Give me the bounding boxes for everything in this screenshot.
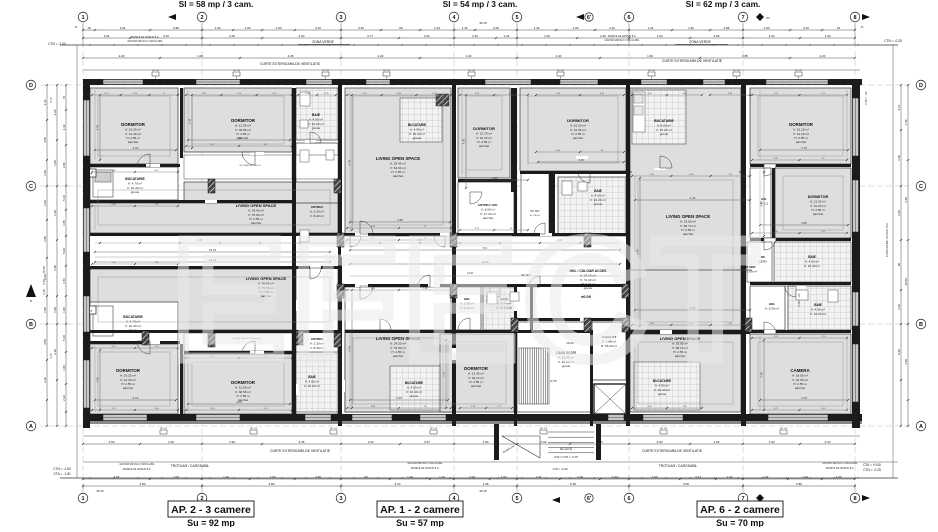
hallway strip bottom-left apt [184, 333, 292, 351]
wall axis 3 [338, 85, 342, 426]
window top 2 [196, 80, 240, 85]
svg-text:PERETE DE SIPRUN B.A.: PERETE DE SIPRUN B.A. [411, 467, 440, 470]
svg-text:HP 110: HP 110 [383, 70, 391, 72]
wall left interior vertical 1 [180, 88, 183, 158]
svg-text:1.15: 1.15 [462, 26, 468, 30]
svg-text:1.00: 1.00 [53, 307, 57, 313]
svg-text:3: 3 [339, 496, 342, 502]
svg-text:C: C [29, 184, 33, 190]
window bottom 5 [420, 415, 446, 421]
rooms ANTREU / WC column bottom-left [296, 268, 338, 414]
svg-text:DORMITOR: DORMITOR [473, 126, 495, 131]
wall left interior vertical 2 [292, 88, 296, 414]
svg-text:GRATAR METALIC CIRCULABIL: GRATAR METALIC CIRCULABIL [822, 462, 858, 465]
svg-text:CURTE EXTERIOARA DE VENTILATIE: CURTE EXTERIOARA DE VENTILATIE [662, 59, 723, 63]
svg-text:1.00: 1.00 [544, 34, 550, 38]
door gaps [146, 164, 160, 167]
CT shaft top-middle [436, 94, 449, 106]
svg-text:1.92: 1.92 [763, 475, 769, 479]
svg-text:1.00: 1.00 [229, 34, 235, 38]
room LIVING OPEN SPACE 26.68 bottom-left [90, 269, 338, 330]
svg-text:AP. 2 - 3 camere: AP. 2 - 3 camere [171, 504, 251, 516]
svg-text:15.80: 15.80 [904, 278, 908, 286]
svg-text:5: 5 [515, 496, 518, 502]
north arrow left [26, 284, 36, 297]
label AP2 [168, 501, 254, 517]
svg-text:1.00: 1.00 [215, 26, 221, 30]
svg-text:CTA = -.90: CTA = -.90 [864, 91, 868, 105]
vertical dim chains inside left rooms [94, 90, 96, 160]
svg-text:4.10: 4.10 [236, 400, 242, 404]
svg-text:1.00: 1.00 [197, 54, 203, 58]
svg-text:gresie: gresie [413, 136, 422, 140]
marker diamond ID top [756, 13, 764, 21]
room BAIE right [788, 286, 851, 330]
svg-text:1: 1 [81, 15, 84, 21]
label AP6 [697, 501, 783, 517]
grid bubble 8 bottom [850, 493, 860, 503]
svg-text:CTN = -1.60: CTN = -1.60 [53, 467, 71, 471]
wall axis 4 [452, 85, 456, 426]
svg-text:1.00: 1.00 [825, 34, 831, 38]
svg-text:CTA = +0.00: CTA = +0.00 [863, 463, 881, 467]
svg-text:SI = 62 mp / 3 cam.: SI = 62 mp / 3 cam. [686, 0, 761, 9]
svg-text:3.12: 3.12 [133, 396, 139, 400]
wall exterior bottom [83, 414, 862, 421]
window bottom 1 [103, 415, 147, 421]
window bottom 8 [768, 415, 828, 421]
door arc dormitor2 bl [242, 341, 255, 354]
svg-text:1.00: 1.00 [483, 440, 489, 444]
inner dimension lines [95, 149, 176, 151]
fixtures baie top-middle [562, 181, 572, 195]
room DORMITOR 16.15 top-right [750, 88, 851, 164]
room antreu zone bottom-middle [345, 286, 451, 412]
svg-text:V: 12.40 m²: V: 12.40 m² [804, 264, 820, 268]
svg-text:PERETE DE SIPRUN B.A.: PERETE DE SIPRUN B.A. [123, 468, 152, 471]
axis connector lines top [82, 23, 84, 45]
wall piers corridor [511, 318, 518, 332]
svg-text:1.02: 1.02 [541, 440, 547, 444]
svg-text:4.50: 4.50 [43, 339, 47, 345]
svg-text:1.10: 1.10 [439, 475, 445, 479]
door arc living bm [360, 286, 373, 299]
window left 2 [84, 208, 90, 252]
svg-text:Su = 57 mp: Su = 57 mp [396, 518, 444, 527]
room INC SERV right top apt [747, 242, 772, 282]
grid bubble B left [26, 319, 36, 329]
svg-text:C: C [919, 184, 923, 190]
svg-text:HP 110: HP 110 [330, 428, 338, 430]
svg-text:2.20: 2.20 [820, 54, 826, 58]
door arc bucatarie tr [660, 156, 672, 168]
window bottom 7 [643, 415, 683, 421]
room ANTREU I HOL 6.50 top-middle [458, 182, 514, 234]
svg-text:2.20: 2.20 [119, 54, 125, 58]
corridor HOL CULOAR ACCES [341, 236, 628, 287]
door arc antreu bl [310, 268, 321, 279]
grid bubble 8 top [850, 12, 860, 22]
wall axis 7 [741, 85, 746, 426]
room DORMITOR 16.25 top-left [90, 88, 178, 164]
open join bucatarie-living right [632, 166, 739, 176]
door arc dormitor bm [458, 318, 470, 330]
svg-text:1: 1 [81, 496, 84, 502]
entrance steps [548, 431, 594, 433]
svg-text:TROTUAR / CAROSABIL: TROTUAR / CAROSABIL [171, 464, 210, 468]
door arc camera br [764, 322, 776, 334]
fence ticks top [89, 44, 91, 46]
door arc living bm2 [380, 319, 391, 330]
svg-text:HP 110: HP 110 [233, 70, 241, 72]
svg-text:2.20: 2.20 [825, 440, 831, 444]
svg-text:1.00: 1.00 [62, 162, 66, 168]
svg-text:5.60: 5.60 [897, 349, 901, 355]
dimension chain left col 1 [46, 85, 48, 426]
door arc antreu tm [470, 192, 482, 204]
dimension chain bottom row 1 [83, 443, 855, 445]
svg-text:CTA = -.06: CTA = -.06 [797, 293, 801, 307]
svg-text:LIVING OPEN SPACE: LIVING OPEN SPACE [376, 156, 420, 161]
ramp RAMPA 8% [502, 436, 540, 458]
window right 3 [853, 292, 859, 326]
svg-text:6': 6' [587, 496, 592, 502]
marker arrow right top [862, 14, 870, 20]
grid bubble 2 bottom [197, 493, 207, 503]
room BAIE top-left [296, 88, 338, 140]
svg-text:5: 5 [515, 15, 518, 21]
svg-text:6': 6' [587, 15, 592, 21]
svg-text:gresie: gresie [129, 328, 138, 332]
door arc dormitor 12.25 [764, 238, 776, 250]
svg-text:1.60: 1.60 [688, 26, 694, 30]
svg-text:HP 110: HP 110 [160, 428, 168, 430]
grid bubble D left [26, 80, 36, 90]
svg-text:INC SERV A: 1.40 m²: INC SERV A: 1.40 m² [240, 164, 261, 167]
grid bubble 5 top [512, 12, 522, 22]
site boundary lines [60, 44, 898, 46]
window right 1 [853, 98, 859, 156]
svg-text:3.40: 3.40 [897, 155, 901, 161]
svg-text:1.00: 1.00 [424, 34, 430, 38]
svg-text:8: 8 [853, 15, 856, 21]
svg-text:2.20: 2.20 [836, 475, 842, 479]
svg-text:2.67: 2.67 [424, 440, 430, 444]
svg-text:GRATAR METALIC CIRCULABIL: GRATAR METALIC CIRCULABIL [407, 462, 443, 465]
svg-text:2: 2 [200, 15, 203, 21]
svg-text:2.20: 2.20 [315, 26, 321, 30]
door arc baie tl [310, 132, 321, 143]
svg-text:Su = 92 mp: Su = 92 mp [187, 518, 235, 527]
svg-text:CURTE EXTERIOARA DE VENTILATIE: CURTE EXTERIOARA DE VENTILATIE [642, 449, 703, 453]
svg-text:1.40: 1.40 [904, 119, 908, 125]
svg-text:BUCATARIE: BUCATARIE [123, 315, 143, 319]
svg-text:1.00: 1.00 [53, 160, 57, 166]
corridor band left [90, 236, 338, 266]
window top 9 [766, 80, 828, 85]
svg-text:D: D [919, 83, 923, 89]
grid bubble 3 bottom [336, 493, 346, 503]
window bottom 2 [196, 415, 240, 421]
svg-text:3.40: 3.40 [897, 304, 901, 310]
marker diamond ID bottom [756, 494, 764, 502]
svg-text:5.80: 5.80 [140, 482, 146, 486]
svg-text:2.00: 2.00 [657, 440, 663, 444]
bubble 6prime top [585, 13, 593, 21]
svg-text:gresie: gresie [660, 132, 669, 136]
room WC SERV top-middle [521, 171, 549, 234]
svg-text:35.15: 35.15 [96, 489, 104, 493]
svg-text:1.00: 1.00 [802, 475, 808, 479]
svg-text:2.20: 2.20 [769, 34, 775, 38]
svg-text:1.00: 1.00 [577, 475, 583, 479]
door arc baie r [785, 286, 796, 297]
svg-text:3.45: 3.45 [315, 475, 321, 479]
room DORMITOR 16.25 bottom-left [90, 344, 178, 414]
svg-text:2.32: 2.32 [62, 124, 66, 130]
hallway strip top-left apt [184, 155, 292, 179]
grid bubble 6 bottom [624, 493, 634, 503]
svg-text:parchet: parchet [128, 140, 138, 144]
svg-text:1.30: 1.30 [407, 475, 413, 479]
svg-text:SI = 58 mp / 3 cam.: SI = 58 mp / 3 cam. [179, 0, 254, 9]
window right 4 [853, 344, 859, 402]
room BAIE bottom-left tiles [296, 352, 338, 412]
door arc baie bm [489, 286, 500, 297]
svg-text:3.45: 3.45 [299, 440, 305, 444]
wall exterior left [83, 79, 90, 428]
svg-text:HP 110: HP 110 [780, 428, 788, 430]
window bottom 6 [608, 415, 624, 421]
dimension chain left col 3 [65, 85, 67, 426]
svg-text:1.02: 1.02 [536, 475, 542, 479]
svg-text:TROTUAR / CAROSABIL: TROTUAR / CAROSABIL [659, 464, 698, 468]
grid bubble 3 top [336, 12, 346, 22]
room DORMITOR 12.90 top-left [184, 88, 292, 152]
svg-text:1.00: 1.00 [62, 365, 66, 371]
svg-text:5.17: 5.17 [897, 104, 901, 110]
svg-text:6.25: 6.25 [904, 197, 908, 203]
svg-text:CTN = -2.00: CTN = -2.00 [48, 42, 66, 46]
svg-text:SI = 54 mp / 3 cam.: SI = 54 mp / 3 cam. [443, 0, 518, 9]
kitchen tiles BUCATARIE bottom-middle [390, 366, 442, 410]
svg-text:6: 6 [627, 15, 630, 21]
svg-text:1.50: 1.50 [42, 289, 46, 295]
room HOL right upper [750, 168, 771, 238]
svg-text:1.90: 1.90 [53, 265, 57, 271]
svg-text:2.00: 2.00 [897, 210, 901, 216]
svg-text:DORMITOR: DORMITOR [116, 368, 141, 373]
fence ticks bottom [89, 477, 91, 479]
svg-text:EFECT: EFECT [172, 205, 764, 395]
svg-text:2.20: 2.20 [53, 109, 57, 115]
svg-text:3.45: 3.45 [358, 26, 364, 30]
svg-text:3.27: 3.27 [695, 475, 701, 479]
svg-text:5.10: 5.10 [49, 97, 53, 103]
door arc living tm [360, 221, 373, 234]
svg-text:GRATAR METALIC CIRCULABIL: GRATAR METALIC CIRCULABIL [127, 40, 163, 43]
room LIVING OPEN SPACE 25.49 top-middle [345, 88, 451, 234]
svg-text:4.30: 4.30 [462, 138, 466, 144]
door arc corridor b [350, 236, 361, 247]
svg-text:2.00: 2.00 [493, 26, 499, 30]
svg-text:1.56: 1.56 [62, 278, 66, 284]
svg-text:4.50: 4.50 [904, 359, 908, 365]
svg-text:2.32: 2.32 [43, 99, 47, 105]
window top 1 [103, 80, 143, 85]
svg-text:BUCATARIE: BUCATARIE [654, 119, 674, 123]
room DORMITOR 12.25 right [775, 168, 851, 238]
grid bubble A left [26, 421, 36, 431]
door arc dormitor2 tl [242, 152, 255, 165]
svg-text:4.30: 4.30 [578, 158, 584, 162]
svg-text:1.00: 1.00 [573, 26, 579, 30]
wall right living split [626, 330, 750, 334]
svg-text:2.00: 2.00 [43, 200, 47, 206]
svg-text:ZONA VERDE: ZONA VERDE [312, 40, 335, 44]
svg-text:BAIE: BAIE [594, 189, 602, 193]
window top 7 [641, 80, 667, 85]
grid bubble C right [916, 181, 926, 191]
svg-text:2.00: 2.00 [612, 475, 618, 479]
svg-text:DORMITOR: DORMITOR [808, 195, 829, 199]
svg-text:V: 12.20 m²: V: 12.20 m² [810, 312, 826, 316]
room HOL bottom-middle [455, 286, 481, 330]
room INC SERV center [517, 286, 592, 330]
grid bubble B right [916, 319, 926, 329]
svg-text:CTN = -0.25: CTN = -0.25 [863, 468, 881, 472]
svg-text:6: 6 [627, 496, 630, 502]
window top 4 [366, 80, 390, 85]
svg-text:2.20: 2.20 [600, 34, 606, 38]
svg-text:.60: .60 [398, 26, 403, 30]
svg-text:1.90: 1.90 [229, 440, 235, 444]
grid bubble 7 top [738, 12, 748, 22]
svg-text:gresie: gresie [131, 190, 140, 194]
svg-text:4.55: 4.55 [43, 137, 47, 143]
svg-text:.60: .60 [363, 475, 368, 479]
svg-text:1.00: 1.00 [727, 475, 733, 479]
svg-text:5.80: 5.80 [173, 26, 179, 30]
dimension chain top row 1 [83, 29, 855, 31]
fixtures baie bottom-middle [487, 292, 497, 304]
dimension chain right col 1 [900, 85, 902, 426]
window top 8 [703, 80, 725, 85]
watermark letters [172, 205, 764, 395]
svg-text:3: 3 [339, 15, 342, 21]
svg-text:HP 110: HP 110 [557, 70, 565, 72]
svg-text:5.10: 5.10 [62, 335, 66, 341]
CT box top-left [85, 169, 96, 177]
svg-text:5.10: 5.10 [62, 195, 66, 201]
svg-text:CTA = -0.30: CTA = -0.30 [553, 467, 568, 471]
bubble 6prime bottom [585, 494, 593, 502]
svg-text:parchet: parchet [796, 140, 806, 144]
svg-text:5.80: 5.80 [269, 482, 275, 486]
svg-text:BAIE: BAIE [814, 303, 822, 307]
door arc corridor c [529, 276, 540, 287]
svg-text:2.40: 2.40 [609, 26, 615, 30]
svg-text:1.00: 1.00 [368, 440, 374, 444]
svg-text:2.62: 2.62 [188, 118, 192, 124]
svg-text:1.92: 1.92 [714, 440, 720, 444]
svg-text:1.00: 1.00 [168, 440, 174, 444]
svg-text:3.77: 3.77 [367, 34, 373, 38]
svg-text:1.00: 1.00 [764, 26, 770, 30]
svg-text:2.67: 2.67 [469, 475, 475, 479]
room DORMITOR 12.00 bottom-left [184, 354, 292, 414]
marker arrow bottom [552, 497, 560, 503]
svg-text:BAIE: BAIE [808, 255, 816, 259]
grid bubble 1 bottom [78, 493, 88, 503]
svg-text:PERETE DE SIPRUN B.A.: PERETE DE SIPRUN B.A. [826, 467, 855, 470]
svg-text:parchet: parchet [813, 212, 823, 216]
svg-text:HOL: HOL [769, 302, 776, 306]
window left 4 [84, 360, 90, 408]
window top 6 [560, 80, 598, 85]
svg-text:PERETE DE SIPRUN B.A.: PERETE DE SIPRUN B.A. [131, 36, 160, 39]
svg-text:2.20: 2.20 [299, 34, 305, 38]
door arc baie tm [534, 223, 545, 234]
corridor dim lines extra [95, 242, 620, 244]
svg-text:1.60: 1.60 [647, 54, 653, 58]
svg-text:4.50: 4.50 [96, 377, 100, 383]
svg-text:1.00: 1.00 [501, 475, 507, 479]
svg-text:1.00: 1.00 [597, 440, 603, 444]
svg-text:1.00: 1.00 [62, 307, 66, 313]
svg-text:CTA = -1.40: CTA = -1.40 [54, 472, 71, 476]
grid bubble 1 top [78, 12, 88, 22]
svg-text:Su = 70 mp: Su = 70 mp [716, 518, 764, 527]
svg-text:DORMITOR: DORMITOR [231, 118, 256, 123]
svg-text:1.30: 1.30 [223, 475, 229, 479]
svg-text:A: A [919, 424, 923, 430]
svg-text:4.75: 4.75 [801, 396, 807, 400]
svg-text:HP 110: HP 110 [430, 428, 438, 430]
window left 1 [84, 100, 90, 156]
svg-text:1.85: 1.85 [62, 220, 66, 226]
door arc dormitor bl [137, 341, 150, 354]
svg-text:2.20: 2.20 [163, 34, 169, 38]
svg-text:5.10: 5.10 [395, 482, 401, 486]
room CAMERA 18.05 bottom-right [750, 334, 851, 414]
room LIVING OPEN SPACE 35.95 bottom-right [630, 334, 741, 412]
grid bubble A right [916, 421, 926, 431]
room LIVING OPEN SPACE 24.20 bottom-middle [345, 330, 451, 412]
svg-text:B: B [919, 322, 923, 328]
svg-text:BUCATARIE: BUCATARIE [408, 123, 426, 127]
room LIVING OPEN SPACE 33.60 right [630, 172, 741, 330]
room HOL 2 right [750, 286, 785, 330]
svg-text:3.52: 3.52 [104, 34, 110, 38]
grid bubble 2 top [197, 12, 207, 22]
svg-text:1.42: 1.42 [534, 26, 540, 30]
svg-text:15: 15 [837, 26, 841, 30]
svg-text:CURTE EXTERIOARA DE VENTILATIE: CURTE EXTERIOARA DE VENTILATIE [260, 62, 321, 66]
svg-text:HP 110: HP 110 [152, 70, 160, 72]
svg-text:1.38: 1.38 [483, 482, 489, 486]
room LIVING OPEN SPACE 29.49 top-left [90, 203, 338, 233]
svg-text:1.00: 1.00 [466, 54, 472, 58]
svg-text:2.40: 2.40 [556, 54, 562, 58]
svg-text:4.55: 4.55 [96, 124, 100, 130]
svg-text:HP 110: HP 110 [540, 428, 548, 430]
svg-text:2.20: 2.20 [472, 34, 478, 38]
room BUCATARIE top-right tiles [632, 90, 686, 144]
svg-text:2.20: 2.20 [53, 349, 57, 355]
svg-text:CTA = CTN = -0.75: CTA = CTN = -0.75 [554, 455, 578, 459]
svg-text:5.80: 5.80 [796, 482, 802, 486]
